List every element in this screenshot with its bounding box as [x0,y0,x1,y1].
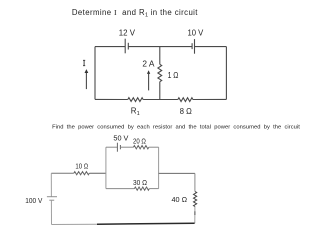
wire left top (from 100V loop corner to 10 ohm) [51,172,74,174]
bottom branch wire right [149,188,158,190]
wire right side dark segment [194,211,196,215]
wire bottom-right segment [193,98,226,100]
bottom branch wire left [106,188,134,190]
svg-text:Find the power consumed by eac: Find the power consumed by each resistor… [52,124,300,130]
svg-text:12 V: 12 V [119,28,136,37]
resistor 10 ohm [74,172,90,175]
wire between batteries (12V to 10V) [128,46,192,48]
wire box to right side [159,172,195,174]
battery 100V long plate [47,196,57,198]
wire bottom dark segment [97,223,195,224]
svg-text:100 V: 100 V [25,196,43,205]
current arrow 2A [148,74,150,91]
svg-text:Determine I and R1 in the cir: Determine I and R1 in the circuit [72,8,198,18]
resistor 1 ohm [158,64,162,81]
wire left side [94,47,96,100]
battery 100V short plate [49,199,54,201]
wire left side lower (battery to bottom corner) [50,200,52,224]
svg-text:10 Ω: 10 Ω [75,161,88,170]
top branch wire right [149,146,159,148]
svg-text:1 Ω: 1 Ω [168,70,179,80]
svg-text:40 Ω: 40 Ω [172,195,188,204]
svg-text:10 V: 10 V [188,28,204,37]
wire left side upper (corner to 100V battery) [50,173,52,196]
wire bottom-middle segment [143,99,178,101]
current arrow I [85,73,87,89]
wire 10 ohm to box [89,172,106,174]
wire right side upper [194,173,196,191]
label I [83,60,85,65]
resistor 30 ohm [134,187,149,190]
battery 50V short plate [119,145,121,149]
resistor 40 ohm [194,192,197,207]
wire top-right segment (10V battery to right corner) [195,46,227,48]
battery V1 12V short plate [127,43,129,50]
svg-text:30 Ω: 30 Ω [133,178,147,187]
wire middle branch upper [159,47,161,65]
box right edge [158,147,160,188]
wire middle branch lower [159,82,161,100]
battery V2 10V short plate [191,43,193,49]
box left edge [105,147,107,188]
wire bottom-left segment [95,98,128,100]
arrowhead 2A [147,70,150,74]
svg-text:2 A: 2 A [142,60,155,69]
battery V2 10V long plate [194,39,196,54]
wire bottom light segment [52,223,98,225]
arrowhead I [85,69,89,73]
svg-text:8 Ω: 8 Ω [180,106,192,116]
svg-text:20 Ω: 20 Ω [133,136,146,145]
battery V1 12V long plate [124,39,126,54]
wire right side lower [194,207,196,224]
resistor 8 ohm [178,98,193,102]
resistor 20 ohm [133,146,148,149]
wire top-left segment (left corner to 12V battery) [95,46,125,48]
wire right side [225,47,227,100]
battery 50V long plate [116,143,118,152]
resistor R1 [128,98,143,102]
svg-text:50 V: 50 V [113,134,129,143]
top branch wire left (box corner to 50V battery) [106,146,118,148]
top branch wire middle (battery to 20 ohm) [120,146,133,148]
